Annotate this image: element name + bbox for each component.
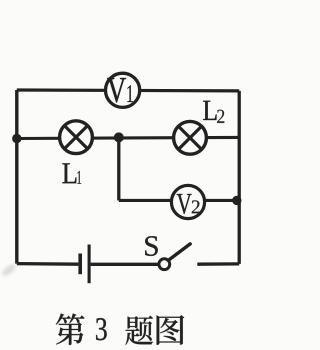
lamp L1: circle body: [60, 121, 93, 154]
wire: bottom segment battery to switch pivot: [91, 263, 159, 266]
switch S: open lever arm: [169, 244, 191, 260]
wire: bottom right segment from fixed contact to corner: [197, 262, 239, 266]
wire: V2 branch horizontal to right vertical wire: [119, 199, 239, 202]
lamp L2: cross stroke NE-SW: [178, 126, 201, 149]
voltmeter V1: subscript 1: [127, 85, 133, 102]
lamp L2: circle body: [174, 121, 207, 154]
lamp L1: cross stroke NE-SW: [64, 126, 87, 149]
wire: middle horizontal through lamps L1 and L2: [17, 137, 239, 138]
junction node: right wire meets V2 branch: [232, 196, 241, 205]
junction node: middle wire meets V2 branch: [114, 132, 124, 142]
wire: right vertical branch: [238, 91, 241, 264]
caption digit 3: [96, 318, 107, 340]
battery: short thick negative plate: [78, 254, 82, 275]
caption character 图: [157, 315, 185, 345]
voltmeter V2: letter V: [177, 194, 192, 214]
battery: long thin positive plate: [88, 245, 91, 284]
caption character 第: [56, 313, 85, 345]
wire: left vertical branch: [15, 90, 18, 264]
voltmeter V1: letter V: [107, 78, 126, 103]
lamp L1: cross stroke NW-SE: [64, 126, 87, 149]
label L1: subscript 1: [77, 171, 81, 184]
wire: V2 branch vertical drop from junction: [117, 137, 120, 200]
voltmeter V2: subscript 2: [192, 200, 200, 213]
scan smudge artifact near bottom-left corner: [0, 262, 17, 278]
junction node: left wire meets middle wire: [12, 134, 21, 143]
label S for switch: [145, 236, 158, 256]
label L1: letter L: [62, 163, 76, 183]
voltmeter V2: circle body: [171, 185, 204, 218]
label L2: letter L: [203, 101, 217, 120]
lamp L2: cross stroke NW-SE: [178, 126, 201, 149]
caption character 题: [125, 316, 153, 345]
voltmeter V1: circle body: [106, 73, 140, 107]
switch S: pivot circle: [159, 259, 170, 270]
wire: bottom left segment to battery: [17, 262, 79, 266]
wire: top horizontal through voltmeter V1: [17, 88, 239, 92]
label L2: subscript 2: [217, 110, 224, 123]
